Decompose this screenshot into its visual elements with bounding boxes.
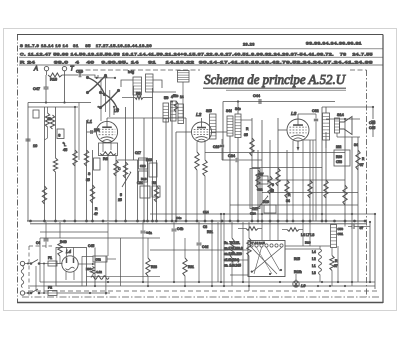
svg-text:C65: C65	[369, 121, 375, 125]
middle component box 4	[140, 186, 150, 198]
heater list labels	[301, 233, 316, 275]
resistor R3 left	[53, 158, 57, 172]
wire right vert 373b	[372, 124, 374, 138]
svg-text:0 T .5 1 2 4 5: 0 T .5 1 2 4 5	[250, 242, 265, 245]
svg-text:C58: C58	[336, 160, 342, 164]
tall box detector right	[250, 169, 260, 209]
wire c62	[315, 114, 317, 221]
switch I1 upper	[25, 260, 48, 265]
wire bottom vert 108	[107, 222, 109, 256]
potentiometer arrow	[122, 171, 131, 187]
label 5 25	[118, 193, 122, 202]
label C13	[171, 95, 184, 99]
wire mid vertical a	[92, 150, 94, 222]
svg-text:R 24 38.0 4 40 9.: R 24 38.0 4 40 9.30.35. 14 31 14.13.22 3…	[20, 60, 373, 64]
wire left vertical 3	[55, 107, 57, 158]
title underline	[203, 87, 346, 89]
svg-text:R13h: R13h	[294, 270, 302, 274]
wire antenna to gang	[62, 75, 95, 78]
label h4g	[128, 70, 134, 74]
label small mid 4	[152, 181, 156, 185]
svg-text:S 21.7.9 13.14 16 14 31 3: S 21.7.9 13.14 16 14 31 35 17.27.15.16.1…	[20, 44, 152, 48]
outer border frame right	[382, 35, 384, 304]
junction dot A	[45, 101, 47, 103]
wire gang vertical pass 2	[104, 78, 106, 112]
svg-text:R36: R36	[336, 155, 342, 159]
resistor R12b small	[174, 101, 178, 112]
resistor R24	[343, 185, 347, 205]
oscillator coil 1	[227, 116, 233, 136]
wire gang1 top	[97, 75, 99, 78]
resistor horizontal above selector 1	[238, 227, 262, 231]
label L2	[196, 112, 202, 118]
chassis dashed line top right	[350, 69, 367, 71]
wire C47 top	[45, 75, 47, 87]
label R6	[103, 157, 108, 161]
wire stub 262 below bus	[261, 221, 263, 241]
wire vert 345	[344, 119, 346, 222]
label C4d	[202, 245, 208, 249]
capacitor C16	[220, 145, 224, 147]
label S14	[337, 113, 344, 117]
label C8 R21b	[203, 225, 213, 234]
heater winding squiggle	[319, 249, 322, 275]
svg-text:R2: R2	[152, 181, 156, 185]
wire mid horizontal 167	[252, 167, 322, 169]
switch post dots	[27, 263, 45, 295]
label C14b	[203, 210, 209, 214]
label C4c bus	[176, 216, 182, 220]
wire mid vertical d	[133, 86, 135, 160]
tube L2	[192, 122, 212, 142]
terminal mains upper	[20, 261, 24, 265]
resistor R33	[247, 238, 251, 256]
box R19 small	[264, 205, 276, 213]
dial lamp L9	[293, 281, 299, 287]
resistor R20	[276, 168, 280, 186]
resistor R21	[285, 180, 289, 198]
label C47	[33, 87, 40, 91]
box below L1 (R6 cathode)	[99, 143, 118, 156]
wire L4 out right	[78, 263, 95, 265]
label C22	[257, 188, 263, 192]
wire speaker top	[322, 107, 373, 113]
wire mid horizontal 152	[205, 152, 345, 154]
label R19	[263, 200, 269, 204]
svg-text:C52: C52	[96, 258, 102, 262]
label L1	[87, 119, 93, 124]
wire vert 278	[277, 118, 279, 222]
wire 185v	[184, 238, 186, 286]
junction speaker	[372, 106, 374, 108]
wire long horizontal y102.5	[28, 102, 91, 104]
svg-text:R17: R17	[258, 172, 264, 176]
svg-text:34: 34	[354, 143, 358, 147]
wire gang2 down	[113, 107, 115, 115]
wire vert 313	[312, 140, 314, 221]
wire vert 358 bottom	[357, 222, 359, 282]
label R9	[136, 92, 141, 96]
svg-text:37: 37	[360, 163, 364, 167]
wire heater top	[285, 246, 320, 249]
switch I2 lower	[25, 289, 48, 294]
svg-text:L: L	[64, 143, 66, 147]
label C62	[312, 109, 319, 113]
label L6	[114, 108, 119, 113]
wire 332v	[331, 248, 333, 287]
middle component box 3	[149, 163, 157, 177]
wire top bus 2 (C44 line)	[223, 101, 335, 103]
mains cord squiggle	[21, 266, 24, 288]
capacitor C4d	[197, 243, 202, 245]
electrolytic C52	[93, 256, 107, 262]
svg-text:F1: F1	[48, 256, 52, 260]
box mid x95	[94, 158, 101, 170]
wire bottom horiz 238	[40, 237, 160, 239]
label R36 C58	[336, 155, 342, 164]
label C4b	[177, 227, 183, 231]
resistor R30	[90, 267, 94, 275]
capacitor C65	[371, 121, 375, 123]
label R30	[86, 267, 92, 271]
middle component box 1	[139, 158, 148, 169]
resistor R1b left	[42, 186, 46, 204]
svg-text:C4: C4	[36, 241, 40, 245]
svg-text:h4g: h4g	[128, 70, 134, 74]
label S16	[58, 134, 60, 138]
svg-text:C45: C45	[88, 244, 94, 248]
capacitor C left small	[33, 110, 39, 118]
IF transformer winding	[210, 114, 217, 139]
svg-text:9: 9	[272, 183, 274, 187]
label S15	[206, 109, 212, 113]
wire heater right	[285, 245, 331, 247]
wire mid vertical j	[165, 118, 167, 221]
outer border frame left	[17, 35, 19, 303]
wire 232v	[231, 222, 233, 286]
wire mid vertical h	[152, 88, 154, 222]
label R13h	[294, 270, 302, 274]
label A antenna	[33, 67, 38, 73]
resistor R4 left	[73, 150, 77, 166]
svg-text:25: 25	[270, 189, 274, 193]
svg-text:L3: L3	[291, 111, 297, 117]
svg-text:45: 45	[63, 148, 67, 152]
svg-text:C24: C24	[250, 212, 256, 216]
outer border frame bottom	[17, 302, 383, 304]
label 3b	[48, 117, 52, 121]
wire stub 278 below bus	[277, 221, 279, 241]
resistor R14	[203, 160, 207, 176]
junction dot S16	[62, 142, 64, 144]
junction dots gang top	[96, 76, 117, 79]
title Schema de principe A.52.U	[204, 72, 346, 87]
wire speaker bottom	[337, 133, 360, 137]
table row S values mid	[243, 43, 255, 47]
wire bottom horiz 275	[230, 274, 248, 276]
wire 205 down	[204, 176, 206, 221]
wire L6 right	[153, 80, 162, 88]
wire 243v	[242, 222, 244, 282]
fuse F1	[48, 261, 57, 266]
label selector volts	[250, 242, 265, 245]
coil can C	[178, 104, 184, 124]
svg-text:282: 282	[336, 145, 342, 149]
label C1b	[76, 70, 83, 74]
capacitor C24	[236, 158, 238, 162]
wire vert 252	[251, 118, 253, 222]
label 282	[336, 145, 342, 149]
label 10	[33, 144, 37, 148]
resistor R16 antenna series	[48, 73, 62, 77]
wire horiz 140	[303, 139, 316, 141]
label c4h	[36, 241, 40, 245]
wire vert l2 left	[175, 132, 177, 222]
svg-text:C62: C62	[312, 109, 319, 113]
svg-text:34: 34	[286, 199, 290, 203]
svg-text:C14: C14	[203, 210, 209, 214]
wire right vert 373	[372, 107, 374, 119]
wire vert mains	[36, 264, 44, 294]
wire xfrm down	[322, 107, 326, 221]
svg-text:4?: 4?	[94, 212, 98, 216]
terminal mains lower	[20, 291, 24, 295]
title underline 2	[226, 89, 346, 91]
wire bottom horiz 214	[150, 213, 375, 215]
wire 148v	[147, 238, 149, 286]
wire osc down 2	[237, 138, 239, 223]
wire L3 plate	[298, 114, 316, 119]
svg-text:5/9: 5/9	[164, 96, 169, 100]
label L4	[66, 249, 71, 254]
label osc coils	[226, 107, 241, 113]
power transformer box	[248, 241, 285, 277]
junction dots y293	[89, 292, 107, 294]
svg-text:52e: 52e	[173, 94, 179, 98]
filter choke squiggle	[91, 276, 109, 280]
arrow trimmer 2	[258, 195, 268, 208]
resistor R17	[256, 170, 260, 188]
svg-text:S4d: S4d	[226, 109, 232, 113]
svg-text:C44: C44	[253, 94, 260, 98]
wire bottom horiz 232	[40, 231, 108, 233]
wire L2 pins down	[197, 142, 205, 222]
wire bottom vert 120	[120, 238, 122, 286]
svg-text:L2: L2	[196, 112, 202, 118]
wire mid vertical g	[147, 160, 149, 222]
svg-text:33.33.34.34.36.36.81: 33.33.34.34.36.36.81	[306, 42, 362, 46]
svg-text:C27: C27	[252, 207, 258, 211]
svg-text:5: 5	[120, 193, 122, 197]
wire left vertical 4	[74, 107, 76, 222]
wire vert 258	[257, 150, 259, 222]
svg-text:R16: R16	[305, 241, 311, 245]
wire bottom vert 60	[59, 222, 61, 238]
label 101	[94, 128, 100, 132]
wire L1 grid left	[87, 131, 97, 133]
label R28b	[151, 265, 157, 269]
resistor R8 mid	[114, 160, 118, 176]
wire top horizontal 92	[153, 91, 177, 93]
middle component box 2	[139, 171, 148, 182]
resistor bottom 60	[58, 240, 62, 256]
junction dot B	[63, 101, 65, 103]
middle component box 5	[152, 186, 160, 197]
wire mains lower run	[57, 292, 110, 294]
wire vert 262	[261, 120, 263, 222]
grid capacitor L1	[91, 130, 92, 134]
wire c16 v	[221, 139, 223, 160]
resistor R32	[230, 238, 234, 258]
resistor R2 left	[50, 115, 54, 129]
label L5 45	[63, 143, 67, 152]
wire mid horizontal 160	[118, 159, 153, 161]
wire gang vertical pass 1	[100, 79, 102, 121]
mains dashed enclosure	[29, 246, 52, 297]
svg-text:S14: S14	[337, 113, 344, 117]
fuse F2	[48, 291, 57, 296]
variable capacitor gang section 1 (C2)	[86, 74, 107, 96]
output transformer winding	[323, 113, 330, 140]
resistor R6	[100, 152, 116, 156]
wire L4 bottom pins	[66, 272, 74, 281]
wire gang top bus	[97, 77, 115, 79]
svg-text:C4b: C4b	[177, 227, 183, 231]
label F1	[48, 256, 52, 260]
resistor R22	[308, 180, 312, 198]
svg-text:L4: L4	[312, 250, 316, 254]
label S 35	[86, 172, 91, 182]
resistor R12 (L2 cathode)	[195, 152, 199, 170]
wire bottom vert left	[39, 238, 41, 282]
wire bottom vert 375	[374, 214, 376, 289]
wire mid horizontal 205	[230, 204, 358, 206]
wire coil block down	[182, 82, 184, 118]
wire R9 right	[143, 97, 153, 99]
svg-text:A: A	[33, 67, 38, 73]
chassis dashed border bottom	[22, 296, 379, 298]
box R17 C27	[257, 176, 268, 184]
wire bottom vert 105	[105, 256, 107, 294]
table row R values	[20, 60, 373, 64]
coil can A	[163, 103, 169, 122]
label L9	[301, 283, 306, 288]
svg-text:C1b: C1b	[76, 70, 83, 74]
label R 4g	[94, 207, 98, 216]
svg-text:L9: L9	[301, 283, 306, 288]
label C50	[338, 227, 344, 236]
variable capacitor gang section 2 (C3)	[99, 89, 120, 111]
svg-text:R31: R31	[188, 265, 194, 269]
table row S values right	[306, 42, 362, 46]
wire mid vertical c	[125, 107, 127, 222]
wire L1 pins down	[103, 142, 111, 152]
capacitor C left2	[26, 139, 31, 141]
box tone ctrl	[334, 150, 350, 166]
wire vert 338 bottom	[337, 246, 339, 282]
wire earth drop	[64, 71, 66, 103]
resistor R25	[356, 150, 360, 170]
resistor R37	[330, 256, 334, 271]
svg-text:L3: L3	[312, 271, 316, 275]
label C24c	[250, 212, 256, 216]
wire filt vert 82	[81, 256, 83, 286]
wire bottom dashed	[28, 290, 378, 292]
wire mid vertical e	[137, 160, 139, 222]
resistor R9b mid	[90, 185, 94, 203]
wire L3 pins	[293, 141, 303, 223]
wire vert 287	[286, 150, 288, 222]
svg-text:L1: L1	[312, 264, 316, 268]
label 59 52e	[164, 94, 179, 100]
label R 34	[286, 193, 291, 203]
main bus upper line	[27, 220, 366, 222]
wire left v3 cont	[55, 172, 57, 222]
wire mains upper to L4 box	[57, 263, 63, 265]
wire mid horizontal 192	[262, 192, 358, 194]
svg-text:S: S	[58, 134, 60, 138]
wire c24 line	[222, 159, 262, 161]
table row C values	[20, 53, 373, 57]
svg-text:10: 10	[33, 144, 37, 148]
wire mid horizontal 146	[216, 145, 222, 147]
svg-text:L2: L2	[312, 257, 316, 261]
wire vert 370 bottom	[369, 222, 371, 282]
wire bottom long 1	[40, 281, 375, 283]
wire R9 left	[122, 97, 135, 99]
dot 370	[369, 221, 371, 223]
capacitor C62	[314, 119, 318, 121]
wire C47 bottom	[45, 89, 47, 102]
wire filt horiz 2767	[87, 276, 161, 278]
wire top bus 1	[128, 117, 186, 119]
resistor R1 left	[45, 113, 49, 127]
capacitor C44	[259, 99, 261, 104]
svg-text:R16: R16	[50, 78, 57, 82]
terminal antenna	[44, 66, 48, 70]
wire 174v	[173, 222, 175, 282]
capacitor bottom 46	[44, 239, 49, 241]
label R 35	[244, 127, 249, 137]
dot 119	[344, 118, 346, 120]
svg-text:C51: C51	[338, 232, 344, 236]
wire mid horizontal 180	[258, 179, 345, 181]
selector bottom dots	[251, 269, 282, 275]
label C24	[228, 154, 235, 158]
wire osc down 1	[229, 136, 231, 222]
speaker cone	[340, 117, 353, 135]
selector terminals	[250, 244, 283, 247]
svg-text:L1: L1	[87, 119, 93, 124]
label R16	[50, 78, 57, 82]
svg-text:R28: R28	[151, 265, 157, 269]
wire L3 grid	[278, 129, 287, 131]
svg-text:R15: R15	[294, 257, 300, 261]
dots bottom bus2	[94, 285, 346, 287]
resistor R10 mid	[154, 186, 158, 202]
label small mid 2	[146, 158, 152, 162]
wire osc top 1	[237, 102, 239, 115]
capacitor C47	[44, 87, 49, 89]
svg-text:R30: R30	[86, 267, 92, 271]
wire bottom long 2	[30, 285, 375, 287]
wire mid vertical f	[143, 118, 145, 222]
oscillator coil 2	[235, 114, 241, 138]
label R18b	[141, 177, 147, 181]
wire bottom vert 60b	[59, 256, 61, 264]
wire mid vertical i	[156, 160, 158, 222]
tube L4	[62, 248, 78, 273]
